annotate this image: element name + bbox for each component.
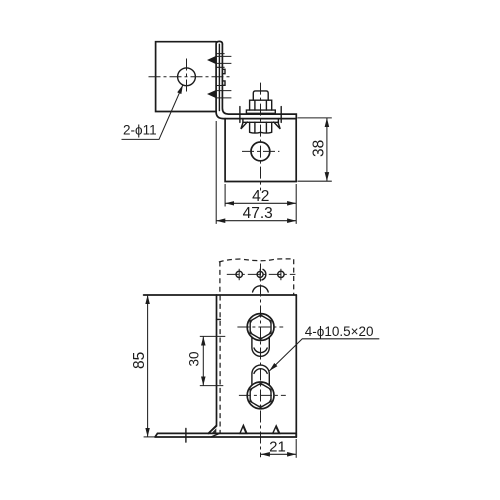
dimension 42 line	[225, 202, 296, 204]
upper nut washer circle	[247, 314, 274, 341]
dimension 38 line	[326, 118, 328, 181]
svg-text:38: 38	[310, 140, 327, 157]
dimension 30 line	[202, 336, 204, 385]
lower nut washer circle	[247, 382, 274, 409]
tooth up left (front view)	[240, 425, 247, 433]
base strip top face	[158, 432, 297, 434]
upper nut chamfer marks	[250, 316, 272, 338]
lower slot tail	[252, 365, 269, 385]
svg-text:85: 85	[131, 352, 148, 369]
hole middle (hidden flange)	[257, 269, 266, 280]
leader 2-phi11	[122, 85, 183, 139]
left edge step tick	[217, 318, 221, 320]
upper washer	[246, 110, 275, 113]
prong right	[274, 122, 281, 129]
strip tick mark	[185, 429, 187, 443]
base plate (plan, lower square 42x38)	[225, 119, 296, 182]
vertical leg inner face with bend to plate top face	[222, 44, 296, 119]
hidden top flange outline (dashed)	[219, 259, 294, 262]
bend hidden line (dashed)	[219, 296, 221, 434]
lower washer	[243, 119, 279, 123]
base strip bottom face with left tip	[155, 433, 296, 437]
dimension 47.3 extension line left	[215, 121, 217, 224]
svg-text:2-ϕ11: 2-ϕ11	[123, 122, 157, 137]
bend relief arc	[253, 286, 269, 292]
lower nut center line horizontal	[239, 394, 286, 396]
vertical leg outer face (side view)	[216, 41, 296, 118]
hole in top flange	[178, 68, 196, 86]
center line horizontal (base plate hole)	[242, 150, 279, 152]
upper nut center line horizontal	[237, 326, 283, 328]
svg-text:21: 21	[269, 439, 286, 456]
hidden flange right edge	[293, 259, 295, 294]
hidden flange holes center line	[227, 273, 296, 275]
lower nut chamfer marks	[250, 385, 272, 407]
dimension 85 line	[147, 295, 149, 437]
tooth upper slot lines	[216, 54, 231, 68]
svg-text:30: 30	[187, 351, 202, 366]
tooth lower slot lines	[216, 86, 231, 98]
bend foot chamfer marks	[208, 425, 219, 437]
top flange plate (plan, upper-left square)	[156, 42, 217, 112]
svg-text:47.3: 47.3	[243, 205, 273, 222]
vertical leg middle line	[218, 44, 220, 110]
lower nut hexagon	[250, 383, 271, 407]
dimension 21 line	[261, 453, 296, 455]
upper slot inner arc	[254, 348, 267, 353]
lower nut	[250, 122, 272, 133]
svg-text:4-ϕ10.5×20: 4-ϕ10.5×20	[305, 324, 374, 339]
right tab upper	[222, 69, 225, 73]
bolt end cap	[253, 91, 268, 100]
tooth upper (left-pointing)	[208, 56, 216, 63]
center line horizontal (top flange)	[149, 76, 233, 78]
spring washer side edges	[240, 107, 281, 123]
vertical center line (slots)	[260, 264, 262, 458]
leader 4-phi10.5x20	[269, 339, 379, 371]
front plate left edge	[208, 295, 216, 433]
front plate top edge with 85 extension	[144, 294, 297, 296]
hole in base plate	[251, 142, 270, 161]
tooth up right (front view)	[273, 426, 280, 434]
center line vertical (top flange hole)	[186, 59, 188, 95]
upper nut	[250, 100, 272, 110]
dimension 85 extension bottom	[144, 436, 155, 438]
front plate right edge	[295, 295, 297, 437]
prong left	[241, 122, 247, 129]
dimension 42 extension lines	[225, 184, 296, 224]
right tab lower	[222, 81, 225, 85]
upper nut hexagon	[250, 315, 271, 339]
svg-text:42: 42	[252, 188, 269, 205]
tooth lower (left-pointing)	[208, 90, 216, 97]
hole right (hidden flange)	[278, 269, 284, 280]
dimension 21 extension right	[295, 439, 297, 458]
lower slot inner arc	[254, 369, 267, 374]
hole left (hidden flange)	[236, 269, 242, 280]
upper slot tail	[252, 337, 269, 356]
dimension 47.3 line	[216, 220, 296, 222]
bolt center line vertical	[260, 83, 262, 191]
dimension 30 extension lines	[200, 336, 226, 385]
hidden flange left edge	[219, 262, 221, 295]
dimension 38 extension lines	[298, 118, 332, 181]
